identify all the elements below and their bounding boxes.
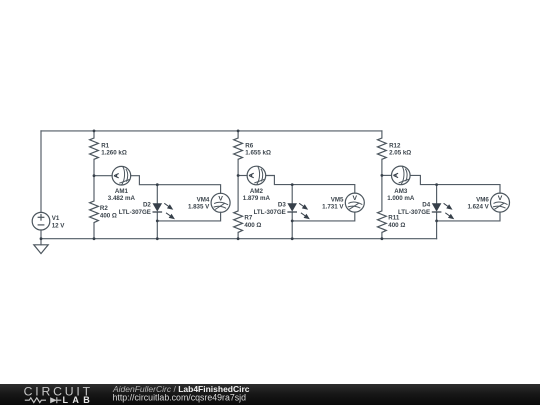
svg-text:1.624 V: 1.624 V [467,204,489,211]
wire D3 column [291,185,293,204]
label R12 value [389,142,411,156]
svg-text:LTL-307GE: LTL-307GE [254,209,286,216]
junction R6/R7/AM2 node [237,174,240,177]
svg-text:LTL-307GE: LTL-307GE [119,209,151,216]
voltage source V1 [32,212,50,230]
resistor R12 [378,138,387,159]
junction D3 anode node [291,183,294,186]
svg-text:R7: R7 [244,215,252,222]
junction bottom rail R7 [237,237,240,240]
svg-text:1.731 V: 1.731 V [322,204,344,211]
junction R12/R11/AM3 node [381,174,384,177]
junction bottom rail R11 [381,237,384,240]
wire left rail [40,131,42,213]
svg-text:1.879 mA: 1.879 mA [243,195,271,202]
wire ground stub [40,239,42,245]
wire AM3 leads [382,174,392,176]
svg-text:R12: R12 [389,142,401,149]
resistor R7 [234,211,243,233]
junction top rail R6 [237,130,240,133]
label VM4 value [188,196,210,210]
svg-text:12 V: 12 V [52,222,66,229]
label AM2 value [243,188,271,202]
svg-text:D2: D2 [143,202,151,209]
svg-text:LAB: LAB [63,395,95,405]
svg-text:1.000 mA: 1.000 mA [387,195,415,202]
wire AM1 leads [94,175,112,177]
LED D3 [287,203,308,218]
svg-text:400 Ω: 400 Ω [244,222,261,229]
svg-text:V: V [353,195,358,202]
svg-text:VM6: VM6 [476,196,489,203]
svg-text:3.482 mA: 3.482 mA [108,195,136,202]
junction top rail R1 [93,130,96,133]
wire VM5 bottom stub [292,212,355,221]
wire D2 column [156,185,158,204]
junction bottom rail D3 [291,237,294,240]
resistor R6 [234,138,243,159]
label VM5 value [322,196,344,210]
label AM1 value [108,188,136,202]
label D4 value [398,202,431,216]
label R11 value [388,215,405,229]
wire stage3 column [381,131,383,138]
wire stage1 column [93,131,95,138]
ammeter AM3 [392,166,411,185]
wire V1 bottom stub [40,230,42,239]
svg-text:1.655 kΩ: 1.655 kΩ [245,150,271,157]
svg-text:VM5: VM5 [331,196,344,203]
junction bottom rail D2 [156,237,159,240]
wire VM4 bottom stub [157,212,220,221]
label R7 value [244,215,261,229]
svg-text:AM3: AM3 [394,188,408,195]
junction bottom rail R2 [93,237,96,240]
voltmeter VM6 [491,193,510,212]
label R6 value [245,142,271,156]
footer bar [0,384,540,405]
ammeter AM1 [112,166,131,185]
junction D2 anode node [156,183,159,186]
svg-text:VM4: VM4 [197,196,210,203]
label D2 value [119,202,152,216]
junction D3 cathode node [291,220,294,223]
voltmeter VM5 [345,193,364,212]
svg-text:D4: D4 [422,202,430,209]
label VM6 value [467,196,489,210]
resistor R1 [90,138,99,159]
wire VM6 bottom stub [437,212,500,221]
junction D4 cathode node [435,220,438,223]
svg-text:AM2: AM2 [250,188,264,195]
junction D4 anode node [435,183,438,186]
svg-text:http://circuitlab.com/cqsre49r: http://circuitlab.com/cqsre49ra7sjd [113,392,247,402]
junction R1/R2/AM1 node [93,174,96,177]
LED D2 [153,203,174,218]
label V1 value [52,215,66,229]
svg-text:V: V [498,195,503,202]
svg-text:R6: R6 [245,142,253,149]
junction V1/ground [40,237,43,240]
svg-text:400 Ω: 400 Ω [100,212,117,219]
label D3 value [254,202,287,216]
svg-text:V1: V1 [52,215,60,222]
svg-text:400 Ω: 400 Ω [388,222,405,229]
svg-text:D3: D3 [278,202,286,209]
ground [34,245,48,254]
svg-text:V: V [218,195,223,202]
voltmeter VM4 [211,193,230,212]
svg-text:LTL-307GE: LTL-307GE [398,209,430,216]
svg-text:AM1: AM1 [115,188,129,195]
svg-text:1.835 V: 1.835 V [188,204,210,211]
label R2 value [100,205,117,219]
resistor R11 [378,211,387,233]
footer logo resistor-diode squiggle [25,397,62,403]
svg-text:1.260 kΩ: 1.260 kΩ [101,150,127,157]
wire top rail [41,130,382,132]
svg-text:R2: R2 [100,205,108,212]
LED D4 [432,203,453,218]
label R1 value [101,142,127,156]
wire bottom rail [41,238,437,240]
wire stage2 column [237,131,239,138]
wire D4 column [436,185,438,204]
junction D2 cathode node [156,220,159,223]
svg-text:R1: R1 [101,142,109,149]
ammeter AM2 [247,166,266,185]
resistor R2 [90,201,99,223]
wire AM2 leads [238,175,247,177]
svg-text:2.05 kΩ: 2.05 kΩ [389,150,411,157]
label AM3 value [387,188,415,202]
